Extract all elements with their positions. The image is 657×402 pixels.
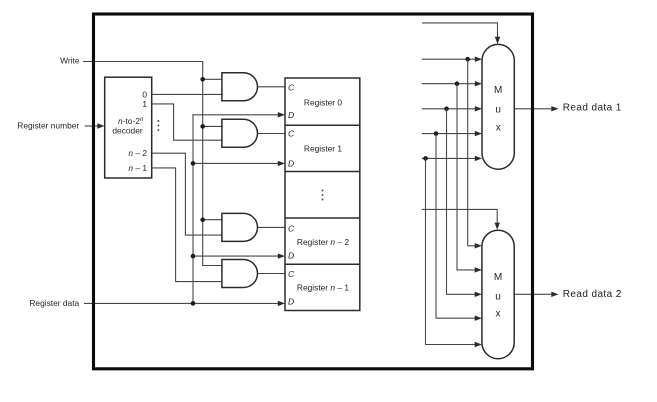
svg-text:M: M	[494, 272, 502, 283]
wire Read data 2 output	[514, 293, 552, 295]
register stack outer box	[285, 78, 360, 311]
svg-text:M: M	[494, 85, 502, 96]
wire G2 output to Register 1 C	[257, 133, 285, 135]
wire branch1 down to mux2 input 1	[468, 59, 476, 246]
svg-text:D: D	[288, 110, 294, 120]
svg-text:Register data: Register data	[29, 298, 79, 308]
svg-text:Register 1: Register 1	[304, 143, 343, 153]
wire Read data 1 output	[514, 108, 552, 110]
wire decoder output 0 to AND G1	[152, 93, 222, 95]
svg-text:Read data 2: Read data 2	[563, 289, 622, 300]
arrowhead mux2 input 3	[475, 292, 482, 297]
wire Register data riser	[193, 115, 279, 304]
svg-text:C: C	[288, 269, 295, 279]
wire Write line horizontal and vertical trunk	[83, 62, 222, 266]
and-gate G3	[222, 213, 258, 241]
wire mux1 data line 3	[422, 108, 476, 110]
wire Write branch to AND G1 top input	[203, 78, 222, 80]
wire branch2 down to mux2 input 2	[457, 84, 476, 270]
junction line5 branch	[423, 156, 428, 161]
wire mux1 data line 5	[422, 157, 476, 159]
wire Write branch to AND G2 top input	[203, 125, 222, 127]
arrowhead into Mux2 top	[495, 223, 500, 230]
arrowhead mux2 input 1	[475, 243, 482, 248]
svg-text:n – 2: n – 2	[128, 148, 147, 158]
ellipsis dots register stack	[322, 190, 324, 201]
wire G3 output to Register n-2 C	[257, 226, 285, 228]
wire G4 output to Register n-1 C	[257, 273, 285, 275]
junction line3 branch	[444, 107, 449, 112]
register divider n-2/n-1	[285, 263, 360, 265]
svg-text:n – 1: n – 1	[128, 163, 147, 173]
wire decoder output n-2 to AND G3	[152, 153, 222, 235]
and-gate G4	[222, 260, 258, 288]
arrowhead mux1 input 1	[475, 57, 482, 62]
wire Register data main line	[84, 302, 279, 304]
arrowhead mux1 input 3	[475, 106, 482, 111]
arrowhead into Register 1 D	[278, 161, 285, 166]
svg-text:0: 0	[142, 89, 147, 99]
arrowhead into Register 0 D	[278, 112, 285, 117]
wire riser branch to Register n-2 D	[193, 255, 279, 257]
arrowhead mux1 input 2	[475, 81, 482, 86]
svg-text:decoder: decoder	[112, 126, 142, 136]
svg-text:u: u	[495, 104, 501, 115]
wire Mux1 select line	[422, 23, 498, 37]
frame border	[94, 14, 533, 369]
wire branch5 down to mux2 input 5	[426, 158, 477, 344]
arrowhead into Register n-1 D	[278, 301, 285, 306]
wire riser branch to Register 1 D	[193, 162, 279, 164]
svg-text:D: D	[288, 296, 294, 306]
decoder U1 box	[105, 77, 152, 178]
arrowhead mux1 input 4	[475, 131, 482, 136]
wire mux1 data line 4	[422, 133, 476, 135]
wire mux1 data line 1	[422, 58, 476, 60]
wire Mux2 select line	[422, 209, 497, 223]
register divider dots/n-2	[285, 217, 360, 219]
svg-text:C: C	[288, 128, 295, 138]
arrowhead Read data 2	[551, 292, 558, 297]
and-gate G2	[222, 119, 258, 147]
wire branch3 down to mux2 input 3	[447, 109, 477, 294]
arrowhead into Register n-2 D	[278, 253, 285, 258]
junction line1 branch	[465, 57, 470, 62]
wire Write branch to AND G3 top input	[203, 219, 222, 221]
svg-text:x: x	[496, 123, 501, 134]
svg-text:Register 0: Register 0	[304, 97, 343, 107]
register divider 0/1	[285, 124, 360, 126]
arrowhead mux2 input 4	[475, 316, 482, 321]
mux U2 body	[482, 44, 514, 169]
wire G1 output to Register 0 C	[257, 86, 285, 88]
junction riser-Regn2	[191, 254, 196, 259]
svg-text:x: x	[496, 309, 501, 320]
ellipsis dots right of decoder	[157, 120, 159, 131]
arrowhead Read data 1	[551, 106, 558, 111]
junction line2 branch	[455, 81, 460, 86]
svg-text:D: D	[288, 251, 294, 261]
wire Register number input	[85, 125, 99, 127]
junction Write-G2	[200, 124, 205, 129]
wire branch4 down to mux2 input 4	[436, 134, 476, 319]
svg-text:1: 1	[142, 99, 147, 109]
svg-text:D: D	[288, 158, 294, 168]
junction line4 branch	[434, 131, 439, 136]
svg-text:Register n – 1: Register n – 1	[297, 283, 349, 293]
mux U3 body	[482, 230, 514, 359]
svg-text:Register n – 2: Register n – 2	[297, 237, 349, 247]
register divider 1/dots	[285, 171, 360, 173]
svg-text:C: C	[288, 223, 295, 233]
wire decoder output 1 to AND G2	[152, 104, 222, 140]
arrowhead into Mux1 top	[495, 37, 500, 44]
and-gate G1	[222, 73, 258, 101]
svg-text:u: u	[495, 291, 501, 302]
junction riser at Register data	[191, 301, 196, 306]
svg-text:Write: Write	[60, 56, 80, 66]
junction riser-Reg1	[191, 161, 196, 166]
wire mux1 data line 2	[422, 83, 476, 85]
svg-text:Read data 1: Read data 1	[563, 103, 622, 114]
arrowhead mux1 input 5	[475, 156, 482, 161]
svg-text:C: C	[288, 82, 295, 92]
arrowhead mux2 input 2	[475, 267, 482, 272]
junction Write-G3	[200, 217, 205, 222]
arrowhead into decoder	[97, 123, 104, 128]
svg-text:Register number: Register number	[17, 120, 79, 130]
arrowhead mux2 input 5	[475, 342, 482, 347]
junction Write-G1	[200, 77, 205, 82]
wire decoder output n-1 to AND G4	[152, 168, 222, 282]
